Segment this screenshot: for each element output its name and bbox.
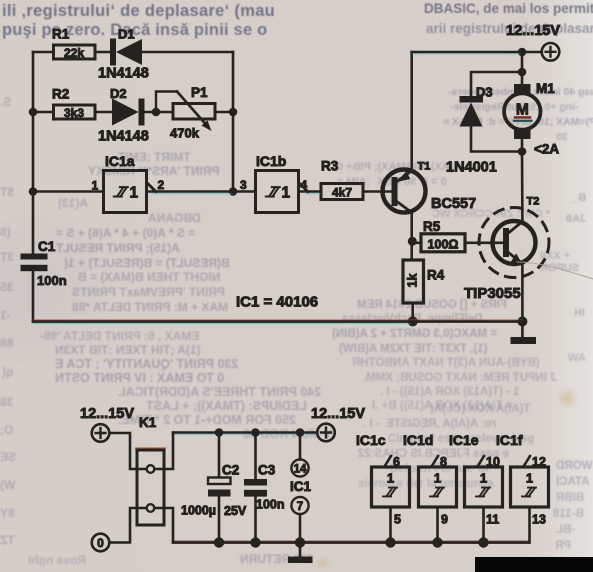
wire C3 leads [254,433,257,543]
svg-text:1: 1 [480,471,487,486]
svg-text:11: 11 [486,513,499,527]
svg-text:1: 1 [92,179,99,193]
wire row2 R2-D2-P1 [33,111,233,114]
ground upper [511,337,537,344]
wire IC1 pin14 lead [299,433,302,460]
resistor R2 [52,87,95,120]
op-amp IC1b schmitt inverter [240,153,308,213]
svg-text:1N4148: 1N4148 [98,66,149,82]
ground lower [288,557,313,564]
junction D3 top branch [518,68,527,77]
potentiometer P1 470k [156,85,215,141]
svg-text:12...15V: 12...15V [80,406,134,422]
wire D3 bottom link [471,127,522,152]
transistor T1 BC557 [383,161,477,213]
svg-text:100Ω: 100Ω [428,237,459,251]
junction T1 collector / R5 [408,237,417,246]
wire K1 pin2 to bottom rail [154,508,173,543]
svg-text:1N4001: 1N4001 [446,160,497,176]
scan color fringe K1 top [136,447,165,449]
terminal +12V top right [506,23,560,61]
capacitor C1 100n [21,239,67,288]
junction R4 rail [408,317,418,327]
wire left vertical bus [32,52,35,322]
svg-text:R5: R5 [423,219,441,234]
svg-text:4: 4 [301,178,308,192]
diode D1 1N4148 [98,27,149,82]
scan artifact black bar [475,557,593,572]
svg-text:TIP3055: TIP3055 [464,285,521,302]
svg-text:<2A: <2A [534,142,559,157]
svg-text:13: 13 [532,513,546,527]
svg-text:12...15V: 12...15V [506,23,560,39]
svg-text:M: M [516,102,529,119]
svg-text:1000µ: 1000µ [181,504,216,518]
svg-text:C3: C3 [258,463,276,478]
svg-text:IC1b: IC1b [256,153,286,169]
svg-text:D1: D1 [118,27,135,42]
svg-text:1: 1 [434,471,441,486]
resistor R3 4k7 [321,159,363,200]
junction row2 right [229,108,238,117]
svg-text:IC1a: IC1a [105,153,135,169]
wire R5 branch [412,242,421,245]
resistor R1 [52,27,95,60]
junction row2 tap [152,108,161,117]
svg-text:1: 1 [387,471,394,486]
junction gate node [229,187,238,196]
wire upper ground rail [33,320,523,323]
junction supply node [518,48,527,57]
svg-text:1N4148: 1N4148 [98,129,149,145]
wire T2 emitter drop [521,264,524,322]
wire T1 collector drop [410,212,413,260]
terminal 0V bottom left [92,534,110,552]
wire R4 to ground rail [411,303,414,322]
connector K1 [137,415,164,525]
svg-text:8: 8 [440,455,447,469]
wire to lower ground symbol [299,543,302,557]
svg-text:12...15V: 12...15V [311,406,365,422]
wire K1 pin1 to supply rail [154,433,173,470]
resistor R5 100 ohm [421,219,465,252]
wire D3 top link [471,72,522,96]
junction motor/D3/T2 node [518,147,527,156]
op-amp IC1f spare inverter [496,432,549,543]
junction T2 emitter rail end [517,317,527,327]
svg-text:R3: R3 [321,159,339,174]
svg-text:100n: 100n [256,498,285,512]
terminal +12V bottom left [80,406,134,442]
wire to upper ground symbol [521,322,524,338]
wire C2 leads [218,433,221,543]
wire top supply rail [412,51,542,54]
junction C2 bottom [214,537,224,547]
transistor T2 TIP3055 [464,196,549,303]
label IC1 power [290,479,312,494]
svg-text:R4: R4 [427,268,445,283]
wire motor to T2 collector [521,139,524,152]
svg-text:IC1e: IC1e [449,432,479,448]
junction C3 bottom [250,537,260,547]
svg-text:C1: C1 [38,239,56,254]
svg-text:T2: T2 [527,196,540,208]
svg-text:12: 12 [532,455,546,469]
svg-text:3: 3 [240,178,247,192]
wire R5 to T2 base [465,242,503,245]
op-amp IC1c spare inverter [356,432,410,543]
svg-text:1: 1 [526,471,533,486]
wire IC1a out to IC1b in [147,190,256,193]
scan artifact pencil curve [517,262,593,279]
junction IC1d out [432,537,442,547]
wire IC1b out to R3 [299,190,322,193]
svg-text:10: 10 [486,455,500,469]
IC1 power pin 7 [291,497,308,514]
svg-text:C2: C2 [222,463,239,478]
svg-text:1: 1 [129,184,138,201]
junction IC1 pin14 top [296,428,305,437]
svg-text:1k: 1k [406,274,420,288]
scan color fringe rails [33,54,529,541]
resistor R4 1k [403,260,445,303]
svg-text:IC1c: IC1c [356,432,386,448]
terminal +12V bottom mid [311,406,365,441]
svg-text:5: 5 [394,513,401,527]
svg-text:M1: M1 [536,81,555,96]
capacitor C2 1000u electrolytic [181,463,247,519]
label IC1 type [236,294,318,311]
wire gate input [33,190,104,193]
junction left bus gate input [29,187,38,196]
svg-text:14: 14 [294,463,307,475]
svg-text:6: 6 [393,455,400,469]
diode D3 1N4001 [446,85,497,176]
junction left bus row2 [29,108,38,117]
wire IC1 pin7 lead [299,514,302,542]
junction IC1c out [385,537,395,547]
junction IC1e out [478,537,488,547]
svg-text:470k: 470k [170,126,200,141]
svg-text:D3: D3 [476,85,493,100]
IC1 power pin 14 [291,459,308,476]
wire row1 R1-D1 [33,51,233,54]
svg-text:4k7: 4k7 [332,186,352,200]
capacitor C3 100n [244,463,285,512]
wire bottom supply rail [173,431,317,434]
junction C3 top [251,428,260,437]
svg-text:T1: T1 [418,161,431,173]
svg-text:9: 9 [441,513,448,527]
svg-text:25V: 25V [224,504,247,518]
motor M1 [504,81,559,157]
svg-text:R1: R1 [52,27,70,42]
diode D2 1N4148 [98,86,149,145]
wire right vertical (osc feedback) [232,52,235,192]
wire R3 to T1 base [363,190,391,193]
svg-text:IC1: IC1 [290,479,312,494]
svg-text:3k3: 3k3 [64,106,84,120]
svg-text:100n: 100n [37,273,67,288]
op-amp IC1a schmitt inverter [92,153,165,213]
op-amp IC1e spare inverter [449,432,503,543]
junction C2 top [215,428,224,437]
wire bottom ground rail [173,541,529,544]
svg-text:IC1d: IC1d [403,432,433,448]
svg-text:K1: K1 [139,415,157,430]
svg-text:1: 1 [281,184,290,201]
wire 0V to K1 pin2 [109,508,147,543]
svg-text:R2: R2 [52,87,69,102]
wire T1 emitter riser [410,52,413,171]
svg-text:BC557: BC557 [431,196,476,212]
svg-text:2: 2 [158,178,165,192]
svg-text:IC1f: IC1f [496,432,523,448]
op-amp IC1d spare inverter [403,432,457,543]
wire T2 collector riser [521,152,524,222]
svg-text:22k: 22k [64,46,84,60]
svg-text:7: 7 [297,501,303,513]
svg-text:D2: D2 [110,86,127,101]
svg-text:0: 0 [97,536,104,550]
junction IC1 pin7 bottom [295,537,305,547]
svg-text:P1: P1 [191,85,208,100]
svg-text:IC1 = 40106: IC1 = 40106 [236,294,318,311]
wire +12V to K1 pin1 [109,433,147,469]
wire supply to motor branch [521,52,524,84]
